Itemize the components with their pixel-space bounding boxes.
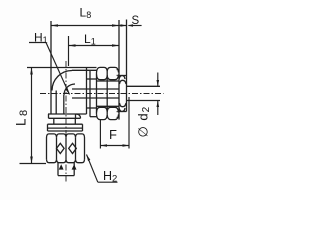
svg-text:∅ d2: ∅ d2 bbox=[136, 106, 153, 138]
svg-text:H1: H1 bbox=[34, 31, 48, 46]
svg-text:L8: L8 bbox=[14, 107, 31, 126]
svg-text:L1: L1 bbox=[84, 32, 96, 47]
svg-text:S: S bbox=[132, 15, 140, 27]
svg-text:H2: H2 bbox=[103, 169, 117, 185]
svg-text:F: F bbox=[109, 127, 117, 142]
svg-text:L8: L8 bbox=[80, 6, 92, 21]
